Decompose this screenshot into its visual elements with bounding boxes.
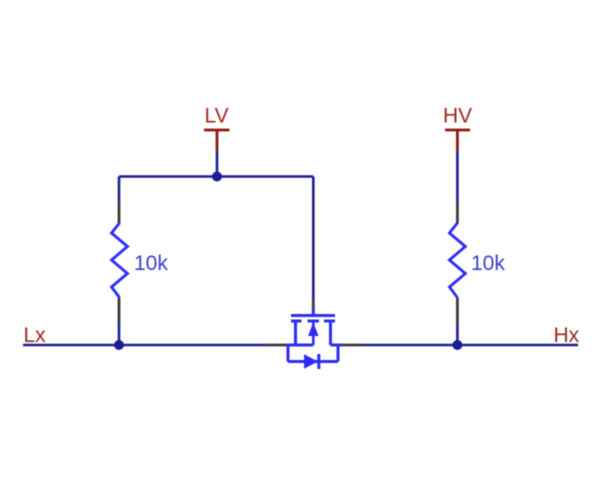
svg-text:HV: HV bbox=[443, 105, 472, 128]
svg-text:10k: 10k bbox=[471, 252, 505, 275]
svg-text:Lx: Lx bbox=[24, 324, 47, 347]
svg-text:10k: 10k bbox=[134, 252, 168, 275]
svg-text:Hx: Hx bbox=[554, 324, 580, 347]
svg-text:LV: LV bbox=[205, 105, 229, 128]
